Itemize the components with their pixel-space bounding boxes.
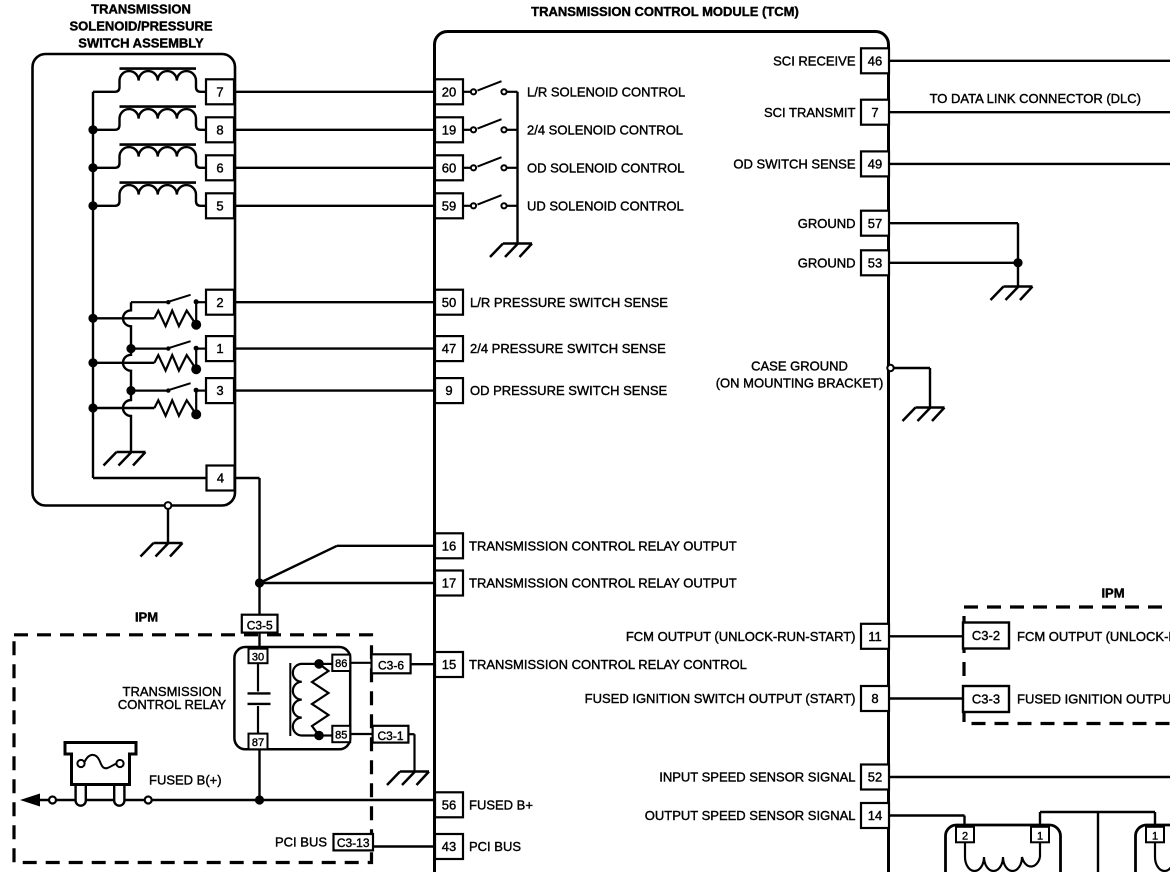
svg-text:OD SOLENOID CONTROL: OD SOLENOID CONTROL [527,160,684,175]
svg-text:57: 57 [868,216,882,231]
svg-text:30: 30 [252,651,264,663]
svg-text:FCM OUTPUT (UNLOCK-RUN-START): FCM OUTPUT (UNLOCK-RUN-START) [626,629,856,644]
svg-text:C3-6: C3-6 [378,659,404,673]
svg-text:4: 4 [217,471,224,486]
svg-text:SWITCH ASSEMBLY: SWITCH ASSEMBLY [78,36,204,51]
svg-text:43: 43 [442,839,456,854]
svg-text:FUSED B(+): FUSED B(+) [149,773,222,788]
svg-text:CASE GROUND: CASE GROUND [751,359,848,374]
svg-text:C3-1: C3-1 [377,729,403,743]
svg-text:2: 2 [962,830,968,842]
svg-text:60: 60 [442,160,456,175]
svg-text:OD SWITCH SENSE: OD SWITCH SENSE [733,157,855,172]
svg-text:OD PRESSURE SWITCH SENSE: OD PRESSURE SWITCH SENSE [470,383,668,398]
svg-text:TRANSMISSION CONTROL MODULE (T: TRANSMISSION CONTROL MODULE (TCM) [531,4,799,19]
svg-text:7: 7 [216,84,223,99]
svg-text:52: 52 [868,770,882,785]
svg-text:2/4 PRESSURE SWITCH SENSE: 2/4 PRESSURE SWITCH SENSE [470,341,666,356]
svg-text:PCI BUS: PCI BUS [469,839,521,854]
svg-text:CONTROL RELAY: CONTROL RELAY [118,697,227,712]
svg-text:46: 46 [868,53,882,68]
svg-text:FCM OUTPUT (UNLOCK-RUN-START): FCM OUTPUT (UNLOCK-RUN-START) [1017,629,1170,644]
svg-text:47: 47 [442,341,456,356]
svg-text:INPUT SPEED SENSOR SIGNAL: INPUT SPEED SENSOR SIGNAL [659,770,855,785]
svg-text:L/R SOLENOID CONTROL: L/R SOLENOID CONTROL [527,84,685,99]
svg-text:FUSED IGNITION OUTPUT (START): FUSED IGNITION OUTPUT (START) [1017,691,1170,706]
svg-text:SCI TRANSMIT: SCI TRANSMIT [764,105,856,120]
svg-text:1: 1 [216,341,223,356]
svg-text:85: 85 [335,729,347,741]
svg-text:8: 8 [871,691,878,706]
svg-text:86: 86 [335,658,347,670]
svg-text:OUTPUT SPEED SENSOR SIGNAL: OUTPUT SPEED SENSOR SIGNAL [645,808,856,823]
svg-text:53: 53 [868,255,882,270]
svg-text:2: 2 [216,295,223,310]
svg-text:PCI BUS: PCI BUS [275,835,327,850]
svg-text:16: 16 [442,538,456,553]
svg-text:SOLENOID/PRESSURE: SOLENOID/PRESSURE [69,19,212,34]
svg-text:UD SOLENOID CONTROL: UD SOLENOID CONTROL [527,198,684,213]
svg-text:TRANSMISSION: TRANSMISSION [91,2,191,17]
svg-text:TRANSMISSION CONTROL RELAY CON: TRANSMISSION CONTROL RELAY CONTROL [469,657,747,672]
svg-text:(ON MOUNTING BRACKET): (ON MOUNTING BRACKET) [716,375,884,390]
svg-text:8: 8 [216,122,223,137]
svg-text:14: 14 [868,808,882,823]
svg-text:GROUND: GROUND [798,216,856,231]
svg-text:50: 50 [442,295,456,310]
svg-text:IPM: IPM [1101,586,1124,601]
svg-text:15: 15 [442,657,456,672]
svg-text:L/R PRESSURE SWITCH SENSE: L/R PRESSURE SWITCH SENSE [470,295,668,310]
svg-text:C3-3: C3-3 [972,692,1000,707]
svg-text:5: 5 [216,198,223,213]
svg-text:SCI RECEIVE: SCI RECEIVE [773,53,856,68]
svg-text:1: 1 [1152,830,1158,842]
svg-text:6: 6 [216,160,223,175]
svg-text:20: 20 [442,84,456,99]
svg-text:TRANSMISSION CONTROL RELAY OUT: TRANSMISSION CONTROL RELAY OUTPUT [469,576,737,591]
svg-text:7: 7 [871,105,878,120]
svg-text:IPM: IPM [135,610,158,625]
svg-text:11: 11 [868,629,882,644]
svg-text:56: 56 [442,797,456,812]
svg-text:C3-5: C3-5 [247,618,273,632]
svg-text:19: 19 [442,122,456,137]
svg-text:FUSED B+: FUSED B+ [469,797,533,812]
svg-text:GROUND: GROUND [798,255,856,270]
svg-text:49: 49 [868,157,882,172]
svg-text:TO DATA LINK CONNECTOR (DLC): TO DATA LINK CONNECTOR (DLC) [930,91,1141,106]
svg-text:C3-2: C3-2 [972,628,1000,643]
svg-text:59: 59 [442,198,456,213]
svg-text:3: 3 [216,383,223,398]
svg-text:9: 9 [445,383,452,398]
svg-text:1: 1 [1037,830,1043,842]
svg-text:C3-13: C3-13 [337,836,370,850]
svg-text:17: 17 [442,576,456,591]
svg-text:FUSED IGNITION SWITCH OUTPUT (: FUSED IGNITION SWITCH OUTPUT (START) [585,691,856,706]
svg-text:TRANSMISSION CONTROL RELAY OUT: TRANSMISSION CONTROL RELAY OUTPUT [469,538,737,553]
svg-text:2/4 SOLENOID CONTROL: 2/4 SOLENOID CONTROL [527,122,683,137]
svg-text:87: 87 [252,737,264,749]
